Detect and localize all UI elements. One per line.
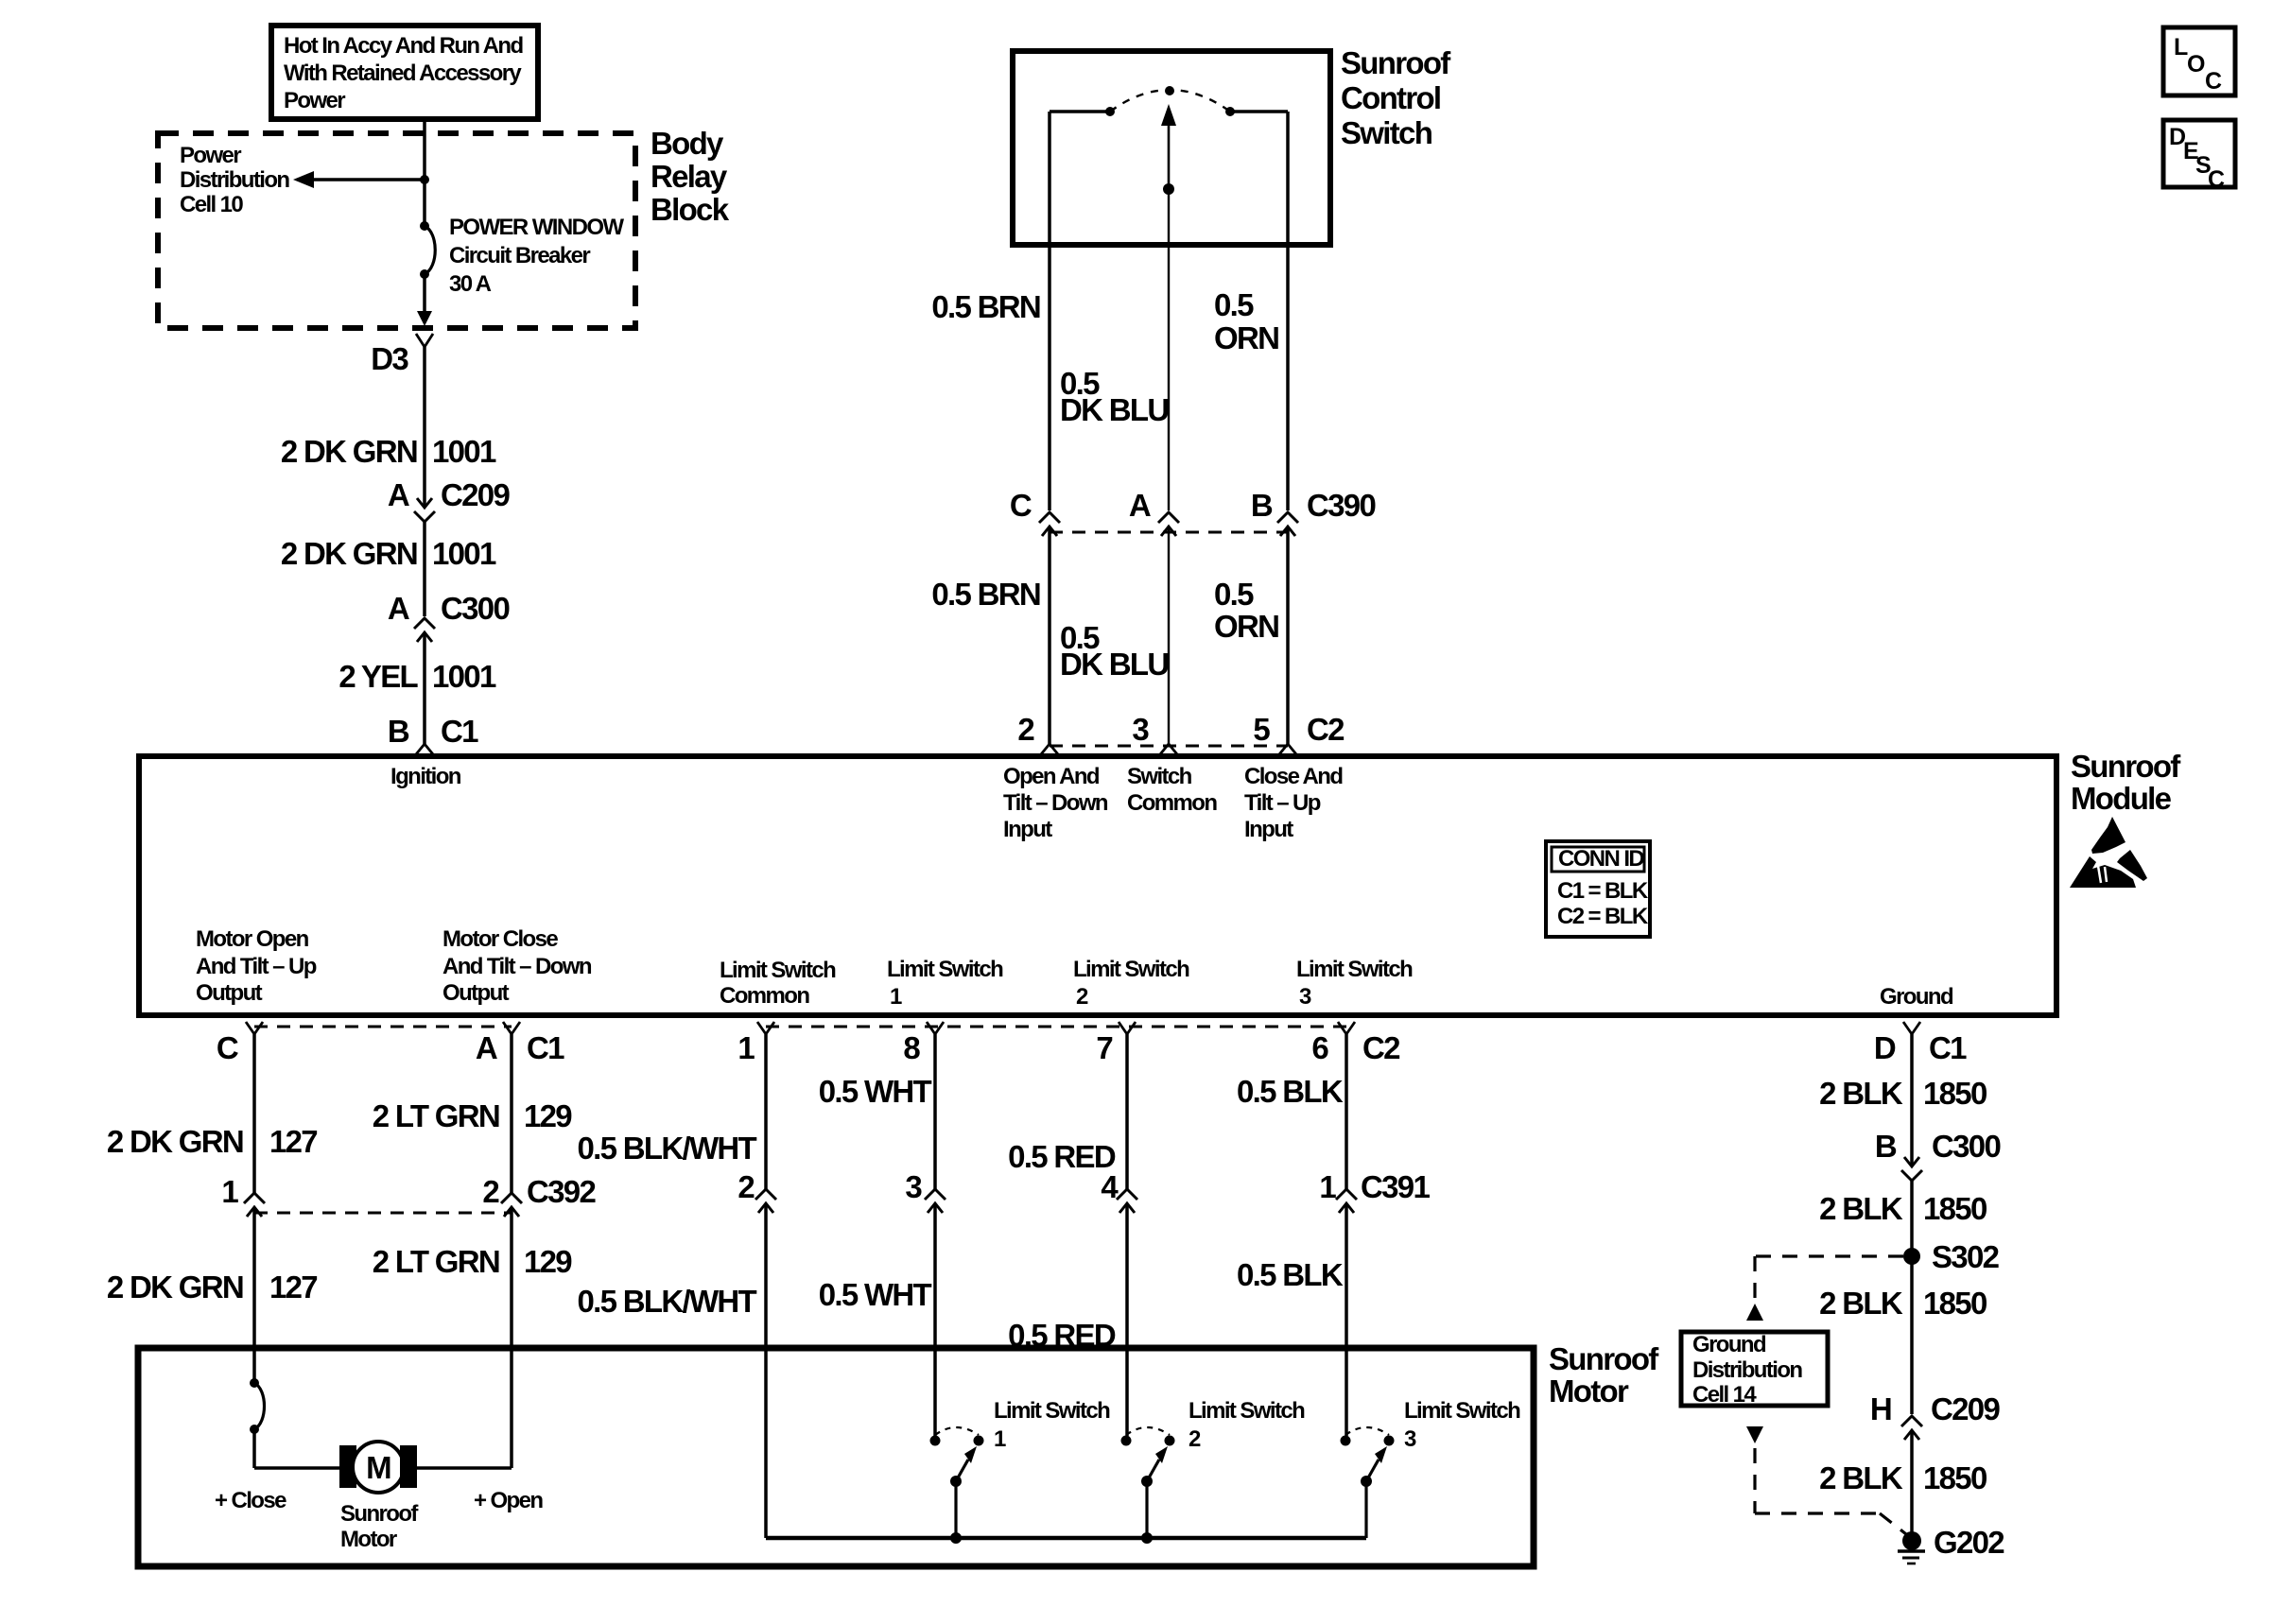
module pin C exit [246,1022,263,1034]
svg-text:129: 129 [524,1098,572,1133]
svg-text:Common: Common [1127,790,1217,816]
svg-text:Control: Control [1341,80,1440,115]
svg-text:2: 2 [1189,1426,1201,1452]
svg-text:C1: C1 [527,1030,564,1065]
svg-text:Block: Block [651,192,730,227]
svg-text:2 DK GRN: 2 DK GRN [107,1270,243,1304]
svg-text:C: C [2205,68,2222,95]
svg-text:C391: C391 [1361,1169,1430,1204]
arrowhead down (ground distribution) [1746,1426,1763,1443]
svg-text:0.5 WHT: 0.5 WHT [819,1074,932,1109]
module pin 1 exit [757,1022,774,1034]
module pin 5 entry [1279,744,1296,754]
svg-text:Ground: Ground [1692,1332,1766,1357]
wire: pin 1 to C391 [764,1034,768,1190]
svg-text:Close And: Close And [1244,764,1343,789]
wire: breaker to motor [252,1429,256,1468]
node: LS2 to bus junction [1141,1532,1153,1544]
wire: C390 to module pin 3 [1168,527,1170,744]
svg-text:+ Close: + Close [215,1488,286,1513]
wire: dashed diagonal to G202 [1880,1513,1906,1534]
svg-text:CONN ID: CONN ID [1558,846,1644,872]
wire: motor to + open side [417,1466,512,1470]
svg-text:2: 2 [482,1174,499,1209]
svg-text:3: 3 [905,1169,922,1204]
module pin D exit [1903,1022,1920,1034]
svg-text:127: 127 [269,1270,317,1304]
svg-text:Limit Switch: Limit Switch [1189,1398,1305,1424]
svg-text:Sunroof: Sunroof [1549,1341,1659,1376]
svg-text:1001: 1001 [432,536,496,571]
svg-text:L: L [2174,34,2188,60]
svg-text:DK BLU: DK BLU [1060,392,1168,427]
svg-text:1: 1 [221,1174,238,1209]
connector C209 ground [1901,1416,1922,1440]
switch: arc center dot [1165,86,1174,95]
svg-text:A: A [476,1030,497,1065]
module pin 8 exit [927,1022,944,1034]
svg-text:2 BLK: 2 BLK [1819,1076,1903,1111]
svg-text:2: 2 [737,1169,755,1204]
ground G202 [1898,1531,1925,1564]
module pin 3 entry [1160,744,1177,754]
svg-text:2 BLK: 2 BLK [1819,1191,1903,1226]
svg-text:A: A [1129,488,1151,523]
svg-text:Ignition: Ignition [390,764,461,789]
wire: switch C to C390 [1048,112,1051,510]
svg-text:1: 1 [1319,1169,1336,1204]
sunroof module box [139,756,2056,1015]
svg-text:1850: 1850 [1923,1191,1987,1226]
svg-text:2 BLK: 2 BLK [1819,1286,1903,1321]
connector C391 pin 1 [1336,1189,1357,1213]
svg-text:Module: Module [2071,781,2172,816]
svg-text:Motor: Motor [340,1527,397,1552]
svg-text:0.5 BRN: 0.5 BRN [931,289,1040,324]
svg-text:1: 1 [890,984,902,1010]
wire: C300 to module pin B [423,632,426,744]
svg-text:ORN: ORN [1214,609,1278,644]
connector C392 pin 1 [244,1193,265,1217]
svg-text:C209: C209 [441,477,510,512]
wire: to motor close brush [254,1466,339,1470]
CONN ID table [1546,841,1650,937]
wire: C392 to motor switch [252,1207,256,1383]
svg-text:0.5: 0.5 [1214,577,1254,612]
svg-text:Switch: Switch [1341,115,1432,150]
wire: C300 to S302 [1910,1181,1914,1256]
svg-text:Limit Switch: Limit Switch [994,1398,1110,1424]
svg-text:2 YEL: 2 YEL [338,659,418,694]
wire: switch A to C390 [1168,189,1170,510]
body relay block (dashed) [158,133,635,328]
wire: dashed toward G202 [1755,1512,1880,1514]
svg-text:C2 = BLK: C2 = BLK [1557,904,1649,929]
wire: dashed below box [1753,1448,1756,1513]
svg-text:2 LT GRN: 2 LT GRN [373,1098,499,1133]
svg-text:2 LT GRN: 2 LT GRN [373,1244,499,1279]
wire: pin A to C392 [510,1034,513,1195]
wire: pin 8 to C391 [933,1034,937,1190]
svg-text:1850: 1850 [1923,1460,1987,1495]
svg-text:3: 3 [1404,1426,1416,1452]
wire: S302 to C209 ground [1910,1256,1914,1414]
module pin A exit [503,1022,520,1034]
wire: C209 to G202 [1910,1430,1914,1541]
svg-text:B: B [388,714,409,749]
svg-text:D3: D3 [371,341,408,376]
svg-text:DK BLU: DK BLU [1060,647,1168,682]
svg-text:ORN: ORN [1214,320,1278,355]
svg-text:2 DK GRN: 2 DK GRN [107,1124,243,1159]
connector C392 pin 2 [501,1193,522,1217]
connector C390 dashed gang line [1050,531,1288,534]
connector C390 pin C [1039,512,1060,536]
svg-text:Ground: Ground [1880,984,1953,1010]
svg-text:Circuit Breaker: Circuit Breaker [449,243,590,268]
wire: to limit switch 3 [1345,1203,1348,1436]
svg-text:1001: 1001 [432,434,496,469]
svg-text:0.5 BRN: 0.5 BRN [931,577,1040,612]
svg-text:2 DK GRN: 2 DK GRN [281,434,417,469]
svg-text:G202: G202 [1934,1525,2004,1560]
node: power distribution tap [420,175,429,184]
svg-text:C300: C300 [1932,1129,2000,1164]
wire: C390 to module pin 2 [1048,527,1051,744]
circuit breaker bottom terminal [420,269,429,279]
svg-text:5: 5 [1253,712,1270,747]
power source label box [271,26,538,119]
svg-text:0.5 BLK/WHT: 0.5 BLK/WHT [578,1131,757,1166]
svg-text:1: 1 [994,1426,1006,1452]
limit switch LS2 [1121,1427,1175,1538]
svg-text:1: 1 [737,1030,755,1065]
svg-text:Input: Input [1244,817,1293,842]
connector C209 [414,498,435,522]
svg-text:0.5 RED: 0.5 RED [1008,1318,1116,1353]
svg-text:2 DK GRN: 2 DK GRN [281,536,417,571]
wire: pin D to C300 [1910,1034,1914,1166]
svg-text:C2: C2 [1362,1030,1400,1065]
module pin 6 exit [1338,1022,1355,1034]
svg-text:And Tilt – Up: And Tilt – Up [196,954,317,979]
module pin B entry [416,744,433,754]
motor thermal breaker bottom terminal [250,1425,259,1434]
limit switch LS1 [930,1427,984,1538]
svg-text:D: D [1874,1030,1896,1065]
connector C390 pin A [1158,512,1179,536]
svg-text:Power: Power [284,88,345,113]
svg-text:Input: Input [1003,817,1052,842]
wire: breaker to block edge [423,274,426,313]
svg-text:1850: 1850 [1923,1286,1987,1321]
wire: feed from hot box to breaker [423,119,426,226]
module pin 7 exit [1119,1022,1136,1034]
switch: right contact stub [1230,110,1288,113]
switch: wiper arrowhead [1161,104,1176,126]
svg-text:30 A: 30 A [449,271,492,297]
svg-text:Output: Output [442,980,510,1006]
svg-text:Sunroof: Sunroof [1341,45,1451,80]
svg-text:0.5 WHT: 0.5 WHT [819,1277,932,1312]
DESC reference box [2163,120,2235,187]
limit switch LS3 [1341,1427,1395,1538]
motor thermal breaker element [254,1383,265,1429]
connector C391 pin 2 [755,1189,776,1213]
ground distribution dashed link [1755,1254,1903,1257]
svg-text:Sunroof: Sunroof [340,1501,419,1527]
svg-text:0.5 BLK: 0.5 BLK [1237,1074,1344,1109]
wire: C209 to C300 [423,521,426,616]
svg-text:8: 8 [903,1030,920,1065]
sunroof motor box [138,1348,1534,1566]
svg-text:2: 2 [1076,984,1088,1010]
svg-text:Limit Switch: Limit Switch [1296,957,1413,982]
svg-text:2: 2 [1017,712,1034,747]
svg-text:Power: Power [180,143,241,168]
wire: C390 to module pin 5 [1286,527,1290,744]
module C2 output dashed gang line [766,1026,1346,1028]
svg-text:Motor Close: Motor Close [442,926,558,952]
svg-text:Relay: Relay [651,159,728,194]
svg-text:Sunroof: Sunroof [2071,749,2181,784]
svg-text:H: H [1870,1391,1891,1426]
svg-text:C390: C390 [1307,488,1375,523]
circuit breaker element [425,226,435,274]
svg-text:Motor Open: Motor Open [196,926,309,952]
LOC reference box [2163,27,2235,95]
svg-text:With Retained Accessory: With Retained Accessory [284,60,522,86]
wire: to limit switch 1 [933,1203,937,1436]
svg-text:127: 127 [269,1124,317,1159]
sunroof control switch box [1013,51,1330,245]
svg-text:7: 7 [1096,1030,1112,1065]
svg-text:B: B [1251,488,1273,523]
svg-text:Output: Output [196,980,263,1006]
svg-text:M: M [366,1450,390,1485]
svg-text:C: C [1010,488,1032,523]
svg-text:A: A [388,477,409,512]
svg-text:S302: S302 [1932,1239,2000,1274]
motor thermal breaker top terminal [250,1378,259,1388]
svg-text:Limit Switch: Limit Switch [887,957,1003,982]
svg-text:Limit Switch: Limit Switch [1073,957,1189,982]
switch: right contact [1225,107,1235,116]
svg-text:1850: 1850 [1923,1076,1987,1111]
svg-text:0.5 BLK: 0.5 BLK [1237,1257,1344,1292]
svg-text:Cell 14: Cell 14 [1692,1382,1757,1408]
svg-text:A: A [388,591,409,626]
connector C300 ground [1901,1157,1922,1181]
svg-text:0.5 BLK/WHT: 0.5 BLK/WHT [578,1284,757,1319]
svg-text:Open And: Open And [1003,764,1100,789]
svg-text:2 BLK: 2 BLK [1819,1460,1903,1495]
svg-text:And Tilt – Down: And Tilt – Down [442,954,592,979]
svg-text:6: 6 [1311,1030,1328,1065]
wire: C392 to motor + open [510,1207,513,1468]
svg-text:C300: C300 [441,591,509,626]
svg-text:C2: C2 [1307,712,1345,747]
svg-text:0.5: 0.5 [1214,287,1254,322]
svg-text:C392: C392 [527,1174,596,1209]
motor M1 sunroof motor symbol [339,1442,417,1493]
svg-text:Distribution: Distribution [1692,1357,1802,1383]
wire: pin 6 to C391 [1345,1034,1348,1190]
svg-text:+ Open: + Open [474,1488,543,1513]
svg-text:Limit Switch: Limit Switch [1404,1398,1520,1424]
svg-text:C209: C209 [1931,1391,2000,1426]
module pin 2 entry [1041,744,1058,754]
svg-text:Limit Switch: Limit Switch [720,958,836,983]
ground distribution box [1681,1332,1828,1406]
svg-text:C: C [2208,166,2225,193]
svg-text:B: B [1875,1129,1897,1164]
svg-text:Common: Common [720,983,809,1009]
svg-text:0.5 RED: 0.5 RED [1008,1139,1116,1174]
switch: wiper arm [1168,123,1171,189]
connector C391 pin 3 [925,1189,946,1213]
module C1 output dashed gang line [254,1026,512,1028]
connector C392 dashed gang line [254,1212,512,1215]
switch: left contact stub [1050,110,1110,113]
switch: left contact [1105,107,1115,116]
svg-text:129: 129 [524,1244,572,1279]
connector C391 pin 4 [1117,1189,1137,1213]
svg-text:C1 = BLK: C1 = BLK [1557,878,1649,904]
svg-text:POWER WINDOW: POWER WINDOW [449,215,624,240]
svg-text:Motor: Motor [1549,1373,1629,1408]
node: LS1 to bus junction [950,1532,962,1544]
connector D3 [416,334,433,347]
arrowhead at block exit [417,311,432,326]
wire: branch to power distribution [312,178,425,181]
svg-text:Cell 10: Cell 10 [180,192,243,217]
arrowhead up (ground distribution) [1746,1304,1763,1321]
svg-text:Body: Body [651,126,724,161]
splice S302 [1903,1248,1920,1265]
wire: pin 7 to C391 [1125,1034,1129,1190]
ESD sensitive device symbol [2070,817,2147,888]
svg-text:O: O [2187,51,2205,78]
wire: dashed down to arrow [1753,1256,1756,1301]
svg-text:3: 3 [1132,712,1149,747]
wire: switch B to C390 [1286,112,1290,510]
switch: common node [1163,183,1174,195]
svg-text:Distribution: Distribution [180,167,289,193]
svg-text:C1: C1 [441,714,478,749]
svg-text:Switch: Switch [1127,764,1192,789]
svg-text:C: C [217,1030,238,1065]
svg-text:Hot In Accy And Run And: Hot In Accy And Run And [284,33,523,59]
wire: to limit switch 2 [1125,1203,1129,1436]
wire: limit switch common bus [766,1536,1366,1541]
svg-text:C1: C1 [1929,1030,1967,1065]
svg-text:Tilt – Up: Tilt – Up [1244,790,1321,816]
svg-text:1001: 1001 [432,659,496,694]
wire: pin C to C392 [252,1034,256,1195]
connector C390 pin B [1277,512,1298,536]
wire: limit switch common to bus [764,1203,768,1538]
circuit breaker top terminal [420,221,429,231]
switch: dashed travel arc [1110,90,1230,112]
wire: D3 to C209 [423,347,426,506]
connector C300 [414,618,435,642]
arrowhead to power distribution [293,171,314,188]
svg-text:Tilt – Down: Tilt – Down [1003,790,1108,816]
svg-text:3: 3 [1299,984,1311,1010]
module C2 dashed gang line [1050,745,1288,748]
